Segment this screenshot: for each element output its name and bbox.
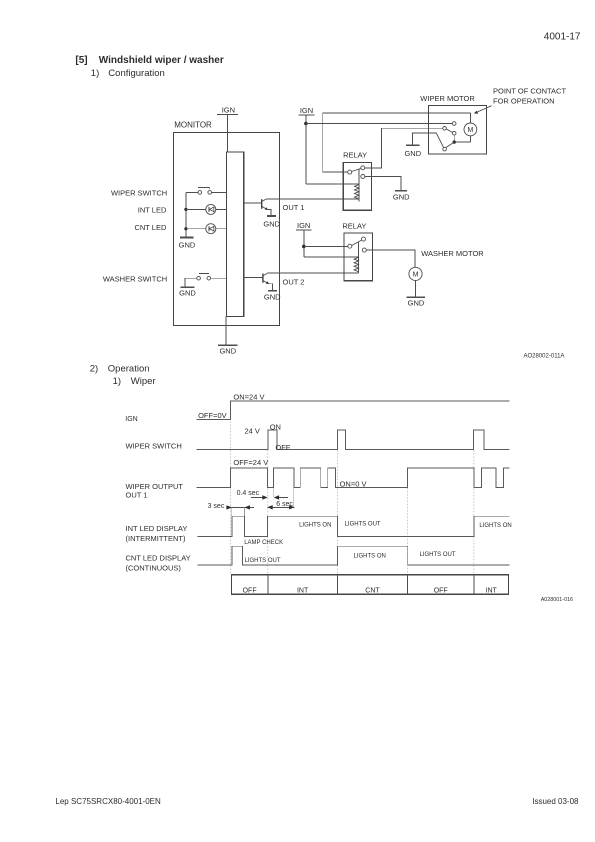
wire IGN node to wiper motor contact (net A) xyxy=(306,123,453,125)
dimension 3 sec xyxy=(208,503,254,510)
dimension 6 sec xyxy=(267,501,294,510)
label INT LED DISPLAY row xyxy=(126,524,188,543)
wiper motor box xyxy=(420,94,486,154)
arrow to point of contact xyxy=(474,106,492,114)
svg-text:GND: GND xyxy=(263,220,280,229)
IGN supply (monitor) xyxy=(217,106,238,115)
guide line lamp pulse left xyxy=(231,507,233,516)
wiper motor park contacts xyxy=(436,122,456,151)
wire RY2 NC contact to washer motor xyxy=(366,250,415,267)
svg-text:IGN: IGN xyxy=(300,106,313,115)
ground G3 (Q1 emitter) xyxy=(263,216,280,229)
LED D1 (INT) xyxy=(186,204,227,214)
dashed gridline T3 xyxy=(407,469,409,575)
wire IGN to monitor bus xyxy=(227,114,229,152)
ground G4 (Q2 emitter) xyxy=(264,291,281,302)
svg-text:OUT 2: OUT 2 xyxy=(283,277,305,286)
svg-text:OFF=0V: OFF=0V xyxy=(198,411,227,420)
svg-text:OUT 1: OUT 1 xyxy=(283,203,305,212)
node junction IGN2 xyxy=(302,245,306,249)
transistor Q1 xyxy=(244,199,271,216)
LED D2 (CNT) xyxy=(186,224,227,234)
svg-text:Issued 03-08: Issued 03-08 xyxy=(532,797,579,806)
svg-text:CNT LED: CNT LED xyxy=(134,223,167,232)
relay RY1 xyxy=(343,151,372,211)
dimension 0.4 sec xyxy=(237,490,288,500)
svg-text:INT LED DISPLAY: INT LED DISPLAY xyxy=(126,524,188,533)
svg-text:CNT: CNT xyxy=(365,588,380,595)
label POINT OF CONTACT FOR OPERATION xyxy=(493,87,566,106)
svg-text:0.4 sec: 0.4 sec xyxy=(237,490,260,497)
svg-text:M: M xyxy=(413,272,419,279)
svg-text:CNT LED DISPLAY: CNT LED DISPLAY xyxy=(126,554,191,563)
svg-text:LIGHTS ON: LIGHTS ON xyxy=(299,522,331,528)
wiper output OUT1 trace xyxy=(197,468,510,487)
dashed gridline T4 xyxy=(473,450,475,575)
svg-text:IGN: IGN xyxy=(222,106,235,115)
svg-text:RELAY: RELAY xyxy=(343,151,367,160)
svg-text:M: M xyxy=(467,127,473,134)
svg-text:POINT OF CONTACT: POINT OF CONTACT xyxy=(493,87,566,96)
svg-text:WIPER SWITCH: WIPER SWITCH xyxy=(126,442,182,451)
svg-text:AO28002-011A: AO28002-011A xyxy=(524,353,565,359)
IGN supply (relay RY2) xyxy=(296,221,312,230)
node junction CNT xyxy=(184,227,187,230)
wire RY1 NO contact up to wiper motor (net C) xyxy=(365,128,443,168)
svg-text:(INTERMITTENT): (INTERMITTENT) xyxy=(126,534,186,543)
svg-text:A028001-016: A028001-016 xyxy=(541,597,573,603)
node junction IGN1 xyxy=(304,122,308,126)
label CNT LED DISPLAY row xyxy=(126,554,191,573)
wire OUT2 Q2 collector to relay RY2 coil xyxy=(268,272,359,274)
svg-text:Lep SC75SRCX80-4001-0EN: Lep SC75SRCX80-4001-0EN xyxy=(55,797,161,806)
svg-text:24 V: 24 V xyxy=(245,426,260,435)
svg-text:4001-17: 4001-17 xyxy=(544,31,581,42)
wire washer switch to ground xyxy=(184,278,186,287)
wire RY1 NC contact to ground xyxy=(365,177,401,191)
svg-text:GND: GND xyxy=(179,288,196,297)
svg-text:LIGHTS ON: LIGHTS ON xyxy=(354,554,386,560)
svg-text:Operation: Operation xyxy=(108,363,150,374)
relay RY2 xyxy=(342,221,372,280)
svg-text:3 sec: 3 sec xyxy=(208,503,225,510)
svg-text:GND: GND xyxy=(219,346,236,355)
washer switch SW2 xyxy=(185,274,227,280)
svg-text:OFF=24 V: OFF=24 V xyxy=(233,458,268,467)
svg-text:WIPER SWITCH: WIPER SWITCH xyxy=(111,188,167,197)
monitor internal bus xyxy=(227,152,244,317)
guide line pulse edge 293.8 xyxy=(293,488,295,507)
ground G6 (RY1 contact) xyxy=(393,191,410,202)
svg-text:2): 2) xyxy=(90,363,98,374)
svg-text:LAMP CHECK: LAMP CHECK xyxy=(244,540,283,546)
wire monitor bus to ground xyxy=(225,317,227,346)
monitor box xyxy=(174,120,280,325)
ground G5 (monitor) xyxy=(218,345,238,355)
ground G7 (wiper motor) xyxy=(404,145,421,158)
motor M2 (washer) xyxy=(409,267,422,297)
IGN trace xyxy=(197,401,510,420)
wire switch branch down xyxy=(185,192,187,237)
wiper switch trace xyxy=(197,430,510,450)
svg-text:WIPER MOTOR: WIPER MOTOR xyxy=(420,94,475,103)
svg-text:LIGHTS OUT: LIGHTS OUT xyxy=(420,552,456,558)
svg-text:RELAY: RELAY xyxy=(342,221,366,230)
svg-text:INT: INT xyxy=(486,588,498,595)
wire RY1 coil feed xyxy=(306,183,359,185)
svg-text:Configuration: Configuration xyxy=(108,68,165,79)
svg-text:GND: GND xyxy=(179,240,196,249)
guide line lamp pulse right xyxy=(244,507,246,516)
svg-text:ON=24 V: ON=24 V xyxy=(233,393,264,402)
svg-text:LIGHTS ON: LIGHTS ON xyxy=(479,523,511,529)
ground G1 (switch/LED) xyxy=(179,237,196,249)
svg-text:MONITOR: MONITOR xyxy=(174,120,212,129)
svg-text:IGN: IGN xyxy=(125,416,137,423)
svg-text:OFF: OFF xyxy=(243,588,257,595)
svg-text:1): 1) xyxy=(113,376,121,387)
dashed gridline T1 xyxy=(267,450,269,575)
motor M1 (wiper) xyxy=(456,113,477,142)
svg-text:GND: GND xyxy=(408,298,425,307)
svg-text:Windshield wiper / washer: Windshield wiper / washer xyxy=(99,55,224,66)
label WIPER OUTPUT OUT 1 row xyxy=(126,482,184,499)
dashed gridline T2 xyxy=(336,450,338,575)
svg-text:ON: ON xyxy=(270,423,281,432)
svg-text:IGN: IGN xyxy=(297,221,310,230)
svg-text:WASHER MOTOR: WASHER MOTOR xyxy=(421,249,484,258)
wire IGN node to RY2 common contact xyxy=(304,245,348,247)
svg-text:GND: GND xyxy=(264,292,281,301)
svg-text:GND: GND xyxy=(404,149,421,158)
svg-text:OUT 1: OUT 1 xyxy=(126,491,148,500)
wire IGN branch to RY1 common contact (net B) xyxy=(323,113,471,172)
svg-text:FOR OPERATION: FOR OPERATION xyxy=(493,97,555,106)
svg-text:OFF: OFF xyxy=(275,443,290,452)
svg-text:WASHER SWITCH: WASHER SWITCH xyxy=(103,274,167,283)
wire IGN down to RY2 xyxy=(303,230,305,257)
transistor Q2 xyxy=(244,273,273,290)
svg-text:ON=0 V: ON=0 V xyxy=(340,479,367,488)
node junction INT xyxy=(184,208,187,211)
guide line pulse edge 273.6 xyxy=(273,488,275,498)
wire OUT1 Q1 collector to relay RY1 coil xyxy=(266,198,359,200)
wire wiper motor ground branch xyxy=(413,133,437,145)
svg-text:OFF: OFF xyxy=(434,588,448,595)
svg-text:LIGHTS OUT: LIGHTS OUT xyxy=(345,521,381,527)
svg-text:LIGHTS OUT: LIGHTS OUT xyxy=(245,558,281,564)
mode band xyxy=(232,575,509,595)
INT LED trace xyxy=(197,516,509,536)
svg-text:1): 1) xyxy=(91,68,99,79)
IGN supply (relay RY1) xyxy=(298,106,314,115)
svg-text:INT: INT xyxy=(297,588,309,595)
wire RY2 coil feed xyxy=(304,256,359,258)
dashed gridline T0 xyxy=(230,402,232,575)
CNT LED trace xyxy=(197,546,509,565)
ground G2 (washer switch) xyxy=(179,287,196,297)
svg-text:(CONTINUOUS): (CONTINUOUS) xyxy=(126,564,182,573)
svg-text:[5]: [5] xyxy=(75,55,87,66)
svg-text:GND: GND xyxy=(393,192,410,201)
ground G8 (washer motor) xyxy=(406,297,425,307)
wiper switch SW1 xyxy=(186,188,227,195)
svg-text:Wiper: Wiper xyxy=(131,376,156,387)
svg-text:INT LED: INT LED xyxy=(138,206,167,215)
wire IGN down to RY1 coil xyxy=(305,115,307,184)
